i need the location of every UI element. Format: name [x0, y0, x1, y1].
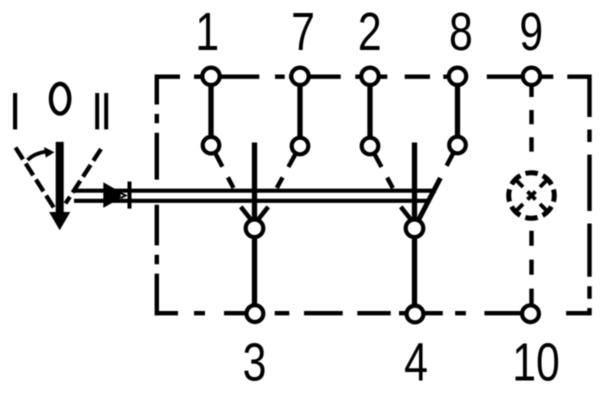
svg-text:8: 8: [449, 2, 473, 62]
svg-text:3: 3: [243, 333, 267, 393]
svg-text:9: 9: [519, 2, 543, 62]
svg-text:1: 1: [195, 2, 219, 62]
svg-text:10: 10: [512, 333, 560, 393]
svg-text:2: 2: [358, 2, 382, 62]
svg-text:7: 7: [291, 2, 315, 62]
svg-text:4: 4: [404, 333, 428, 393]
